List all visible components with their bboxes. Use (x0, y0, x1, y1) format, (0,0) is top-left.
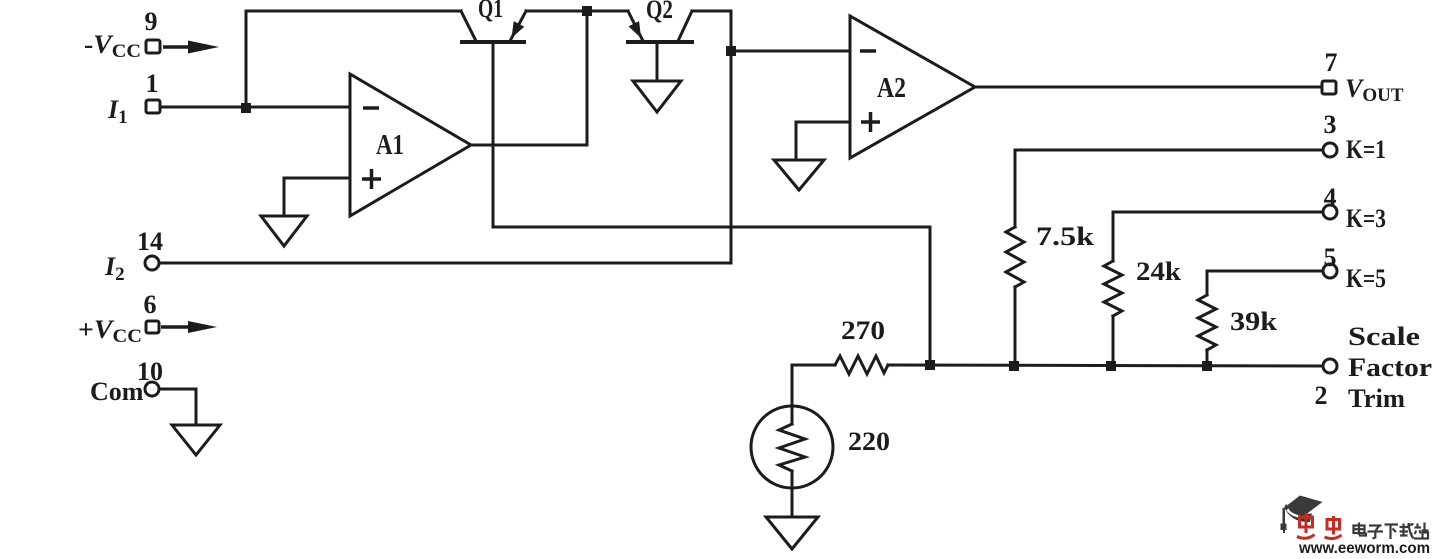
wire 39k bottom to trim line (1206, 350, 1209, 366)
wire A1 output to vertical riser (471, 11, 587, 145)
node junction trim 930 (925, 360, 935, 370)
logo graduation cap band (1285, 504, 1313, 523)
logo chong character 2 (1325, 516, 1342, 539)
node junction A2 input (726, 46, 736, 56)
node junction 39k (1202, 361, 1212, 371)
wire Q1 emitter to center junction to Q2 emitter (526, 10, 628, 13)
wire K=1 line pin3 to 7.5k (1015, 150, 1322, 227)
wire 24k bottom to trim line (1112, 316, 1115, 366)
logo graduation cap band highlight (1287, 508, 1310, 518)
wire K=3 line pin4 to 24k (1113, 212, 1322, 261)
pin 5 terminal (1323, 264, 1337, 278)
wire Q1 base down and across to trim node (493, 42, 930, 365)
svg-text:A1: A1 (376, 129, 404, 161)
transistor Q1 (461, 11, 526, 42)
logo graduation cap board (1283, 496, 1323, 516)
pin 1 terminal (146, 100, 160, 113)
svg-text:7: 7 (1325, 48, 1338, 77)
node junction I1 (241, 103, 251, 113)
svg-text:K=5: K=5 (1346, 264, 1386, 293)
logo character zhan (1414, 523, 1429, 539)
svg-text:7.5k: 7.5k (1036, 222, 1095, 251)
ground under lamp 220 (766, 517, 818, 549)
pin 4 terminal (1323, 205, 1337, 219)
wire vertical from Q2 right corner down to I2 line (730, 11, 733, 263)
pin 7 terminal (1322, 81, 1336, 94)
resistor 39k (1198, 295, 1216, 350)
svg-text:9: 9 (145, 7, 158, 36)
svg-text:Trim: Trim (1348, 384, 1405, 413)
pin 9 terminal (146, 40, 160, 53)
wire A2 noninverting input to ground (796, 122, 850, 160)
op-amp A2 minus sign (860, 49, 876, 53)
lamp 220 filament zigzag (779, 424, 805, 471)
node junction emitters (582, 6, 592, 16)
svg-text:4: 4 (1324, 183, 1337, 212)
wire I1 to A1 inverting input (161, 106, 350, 109)
svg-text:Factor: Factor (1348, 353, 1432, 382)
logo chong character 1 (1297, 514, 1315, 539)
transistor Q1 emitter arrow (512, 21, 525, 38)
svg-text:K=3: K=3 (1346, 204, 1386, 233)
op-amp A2 plus sign (861, 112, 880, 132)
wire 270 left lead to thermistor top (792, 365, 835, 424)
resistor 7.5k (1006, 227, 1024, 287)
logo tassel (1283, 508, 1286, 525)
resistor 24k (1104, 261, 1122, 316)
wire junction to A2 inverting input (731, 50, 850, 53)
node junction 7.5k (1009, 361, 1019, 371)
svg-text:A2: A2 (877, 72, 906, 104)
svg-text:14: 14 (137, 227, 163, 256)
svg-text:www.eeworm.com: www.eeworm.com (1298, 540, 1430, 554)
pin 6 terminal (146, 321, 159, 333)
logo character zi (1368, 526, 1384, 539)
svg-text:Q1: Q1 (478, 0, 503, 23)
arrow +Vcc (188, 321, 217, 333)
transistor Q2 (628, 11, 692, 81)
wire A1 noninverting input to ground (284, 178, 350, 216)
svg-text:39k: 39k (1230, 307, 1278, 336)
ground under A2 input (774, 160, 824, 190)
svg-text:3: 3 (1324, 110, 1337, 139)
pin 14 terminal (145, 256, 159, 270)
pin 3 terminal (1323, 143, 1337, 157)
wire A2 output to pin 7 (975, 86, 1322, 89)
svg-text:Com: Com (90, 377, 144, 406)
svg-text:2: 2 (1315, 381, 1328, 410)
op-amp A1 minus sign (363, 106, 379, 110)
pin 2 terminal (1323, 359, 1337, 373)
svg-text:270: 270 (841, 316, 885, 345)
op-amp A1 (350, 74, 471, 216)
transistor Q2 emitter arrow (629, 21, 642, 38)
op-amp A2 (850, 16, 975, 158)
logo character zai (1400, 523, 1414, 539)
pin 10 terminal (145, 382, 159, 396)
wire Q2 collector top to right corner (692, 10, 731, 13)
arrow -Vcc (188, 41, 219, 54)
wire 7.5k bottom to trim line (1014, 287, 1017, 366)
arrow +Vcc shaft (161, 325, 192, 329)
logo character dian (1354, 523, 1367, 536)
lamp 220 circle (751, 406, 833, 488)
svg-text:1: 1 (146, 69, 159, 98)
svg-text:K=1: K=1 (1346, 135, 1386, 164)
ground under Com (172, 425, 220, 455)
svg-text:6: 6 (144, 290, 157, 319)
ground under Q2 base (633, 81, 681, 112)
op-amp A1 plus sign (362, 169, 381, 189)
node junction 24k (1106, 361, 1116, 371)
logo eeworm (1281, 496, 1431, 558)
ground under A1 input (261, 216, 307, 246)
wire I2 line (160, 262, 731, 265)
svg-text:Q2: Q2 (646, 0, 673, 24)
logo character xia (1385, 525, 1399, 540)
svg-text:220: 220 (848, 427, 890, 456)
arrow -Vcc shaft (163, 45, 192, 49)
resistor 270 (835, 356, 888, 374)
wire K=5 line pin5 to 39k (1207, 271, 1322, 295)
wire scale factor trim line (888, 365, 1322, 366)
wire thermistor bottom to ground (791, 471, 794, 517)
svg-text:24k: 24k (1136, 257, 1182, 286)
wire Com pin to ground (161, 389, 196, 425)
svg-text:Scale: Scale (1348, 322, 1420, 351)
wire top rail from I1 node to Q1 collector (246, 11, 461, 108)
svg-text:5: 5 (1324, 243, 1337, 272)
